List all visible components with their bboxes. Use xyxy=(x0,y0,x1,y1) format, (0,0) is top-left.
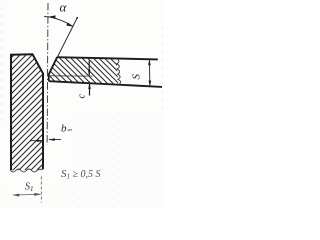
b label underline dash xyxy=(68,129,73,131)
b dimension left arrow (points right) xyxy=(30,140,42,142)
c dimension lower arrow (points up) xyxy=(89,83,91,95)
S dimension line with arrows (right) xyxy=(148,60,151,87)
right plate scalloped break line xyxy=(116,59,120,85)
dot at right end of top edge xyxy=(156,58,158,60)
S1 extension line (dashed, right) xyxy=(40,177,42,203)
c dimension upper arrow (points down) xyxy=(88,61,90,76)
alpha arc right arrowhead xyxy=(66,23,73,27)
right plate top edge xyxy=(57,57,157,59)
svg-text:α: α xyxy=(60,0,68,15)
bleed-through speckle bottom right xyxy=(70,112,164,208)
right plate hatching xyxy=(8,40,169,95)
right plate bottom edge xyxy=(49,81,162,87)
svg-text:b: b xyxy=(61,123,67,135)
right margin dot column xyxy=(162,27,163,108)
center line (dash-dot) xyxy=(46,3,49,145)
right plate root face xyxy=(48,74,50,82)
left plate torn bottom edge xyxy=(11,169,43,172)
left plate hatching xyxy=(0,3,60,235)
alpha arc left arrowhead xyxy=(48,15,55,18)
paper background xyxy=(0,0,164,208)
left plate outline xyxy=(11,54,43,170)
svg-text:S: S xyxy=(131,74,143,80)
right plate bevel edge xyxy=(49,57,57,74)
dot at top end of bevel extension line xyxy=(76,17,78,19)
c extension line xyxy=(49,75,93,77)
b dimension right arrow (points left) xyxy=(49,138,61,140)
left margin dot column xyxy=(1,7,2,120)
S1 dimension line with outward arrowheads xyxy=(13,193,41,196)
svg-text:c: c xyxy=(77,94,88,99)
alpha dimension arc xyxy=(49,17,73,26)
tick on center line at alpha arc xyxy=(44,16,49,18)
bevel extension line (alpha leg) xyxy=(58,18,78,57)
